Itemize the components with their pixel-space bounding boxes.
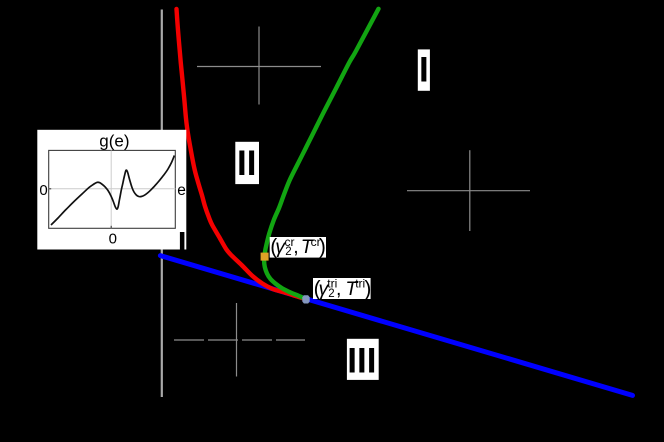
svg-text:0: 0 [109,230,117,247]
svg-text:): ) [364,277,371,300]
svg-text:0: 0 [39,182,47,199]
svg-text:g(e): g(e) [99,131,129,150]
svg-text:): ) [319,236,326,259]
svg-text:II: II [237,144,256,183]
svg-text:III: III [347,342,376,381]
svg-text:,: , [336,278,341,300]
svg-text:2: 2 [285,246,291,258]
svg-text:,: , [293,236,298,258]
svg-text:e: e [177,182,186,199]
svg-text:I: I [419,51,429,90]
svg-text:2: 2 [328,288,334,300]
